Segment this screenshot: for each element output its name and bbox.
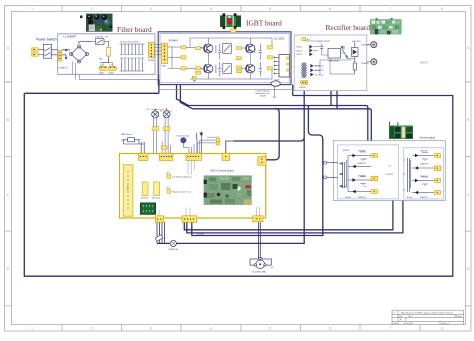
svg-text:MCU Control board: MCU Control board — [211, 168, 235, 172]
connector CN6 bottom — [155, 216, 163, 223]
svg-text:H8T06: H8T06 — [300, 87, 306, 89]
svg-text:T1006: T1006 — [260, 96, 267, 98]
wire: filter to IGBT links — [155, 45, 162, 55]
transformer drive right — [404, 158, 410, 192]
svg-text:2: 2 — [91, 326, 93, 330]
svg-text:CRU-x2: CRU-x2 — [296, 50, 302, 52]
svg-text:CRU-x2: CRU-x2 — [296, 47, 302, 49]
pads column IGBT left — [181, 46, 186, 49]
svg-text:C6: C6 — [389, 165, 391, 167]
svg-text:Thermostat rely: Thermostat rely — [177, 135, 190, 138]
svg-text:CONNECT1: CONNECT1 — [58, 68, 68, 70]
wire: IGBT bottom pair to rectifier — [177, 85, 368, 141]
svg-text:4T0Y7&Y: 4T0Y7&Y — [352, 41, 362, 43]
connector CN2 — [159, 153, 173, 160]
svg-text:C: C — [467, 193, 470, 197]
wire: lamp HL1 leads — [154, 118, 157, 154]
svg-text:3: 3 — [150, 7, 152, 11]
labels right module — [407, 151, 428, 199]
svg-text:DM66-TM: DM66-TM — [358, 175, 366, 177]
svg-text:CON-CM: CON-CM — [95, 37, 104, 39]
svg-text:rheost key: rheost key — [152, 197, 160, 200]
lamp HL2 — [163, 108, 170, 117]
svg-text:C7: C7 — [319, 42, 321, 44]
svg-text:TM26-TM: TM26-TM — [358, 151, 366, 153]
svg-text:Sheet of: Sheet of — [442, 322, 450, 325]
photo: IGBT PCB — [220, 13, 241, 29]
relay CON-CM R1 — [92, 39, 109, 48]
svg-text:C3: C3 — [109, 64, 111, 66]
svg-text:DM66-TM: DM66-TM — [358, 163, 366, 165]
svg-text:EL0826: EL0826 — [345, 197, 351, 199]
svg-text:24_CRU-x5: 24_CRU-x5 — [315, 74, 324, 76]
transformer T2 — [302, 63, 307, 79]
rectifier board box — [294, 35, 367, 91]
transformer drive left — [339, 162, 345, 188]
capacitor C11 — [218, 44, 221, 77]
wire: coil cable from MCU CN4 up to AC line — [234, 137, 305, 141]
svg-text:rheost key: rheost key — [141, 197, 149, 200]
svg-text:IGBT board: IGBT board — [246, 19, 282, 28]
svg-text:Thyristor current n set: Thyristor current n set — [172, 191, 191, 194]
svg-text:9-Jun-2007: 9-Jun-2007 — [403, 323, 414, 325]
svg-text:ICE-2010: ICE-2010 — [340, 187, 347, 189]
svg-text:D: D — [467, 267, 470, 271]
connector CN5 right edge — [258, 157, 266, 166]
connector CN3 — [186, 153, 201, 160]
transistor Q1 — [204, 44, 213, 53]
wire: top-left horizontal to filter board — [24, 80, 159, 94]
relay IC green — [140, 203, 155, 214]
common mode choke L1 — [62, 42, 93, 64]
wire: fan supply pair — [157, 222, 260, 257]
stubs into drive board — [326, 163, 338, 178]
right module rows — [411, 156, 435, 193]
current transformer T1 ellipse — [271, 81, 280, 86]
component Y2 — [154, 182, 160, 196]
svg-text:2: 2 — [91, 7, 93, 11]
wire: C2/C3 ground run — [73, 59, 113, 80]
svg-text:ICF-2010: ICF-2010 — [386, 174, 394, 176]
svg-text:1: 1 — [31, 7, 33, 11]
svg-text:C: C — [7, 193, 10, 197]
wire: coil feedback to MCU right connector — [267, 109, 280, 160]
svg-text:CON8: CON8 — [148, 60, 155, 62]
label: current release coil — [255, 90, 270, 98]
wire: coil sense pads — [197, 140, 216, 153]
transistor Q4 — [246, 64, 255, 73]
connector CN1 — [139, 153, 149, 160]
surge absorber RV1 — [122, 138, 145, 154]
svg-text:7: 7 — [389, 7, 391, 11]
svg-text:46D2: 46D2 — [100, 72, 104, 74]
connector VD8 IGBT left — [162, 44, 168, 64]
pad Jp1 — [302, 38, 306, 41]
svg-text:Phone: Phone — [456, 316, 463, 318]
wire: internal rect links — [306, 41, 355, 74]
svg-text:4T5A7&T: 4T5A7&T — [361, 62, 370, 65]
svg-text:5: 5 — [269, 326, 271, 330]
svg-text:46D2: 46D2 — [109, 72, 113, 74]
svg-text:104/1200V: 104/1200V — [216, 64, 218, 73]
svg-text:FUSE 10A: FUSE 10A — [169, 248, 178, 251]
capacitor C12 — [259, 44, 262, 77]
opto U3 — [352, 42, 359, 61]
power input terminals — [32, 48, 39, 56]
svg-text:L1 10000PF: L1 10000PF — [64, 36, 77, 38]
thermistor RT1 — [181, 138, 186, 143]
svg-text:DC24V/0.28A: DC24V/0.28A — [252, 271, 266, 274]
connector J2 IGBT right — [274, 55, 290, 78]
svg-text:7: 7 — [389, 326, 391, 330]
display connector strip — [123, 165, 133, 216]
relay K1 — [328, 46, 350, 59]
pad above CN2 — [161, 146, 167, 149]
resistor R11 — [353, 60, 356, 74]
pads right module — [434, 154, 441, 158]
wire: rectifier to drive board pair — [331, 91, 337, 109]
connector CN7 bottom — [182, 216, 197, 223]
svg-text:C3 C4 C5 C6 C7 C8 R9: C3 C4 C5 C6 C7 C8 R9 — [120, 41, 138, 43]
wire: rectifier DC down to fuse and MCU — [157, 91, 304, 244]
MCU board box — [120, 154, 266, 219]
title block — [392, 310, 464, 324]
lamp HL1 — [152, 109, 159, 118]
diode bank D4-D6 — [310, 64, 313, 76]
thyristor module VD1 — [223, 44, 232, 74]
svg-text:1 2 3: 1 2 3 — [126, 185, 128, 191]
photo: drive PCB — [389, 122, 413, 140]
wire: rectifier second down to MCU — [192, 106, 323, 236]
transistor Q3 — [246, 44, 255, 53]
svg-text:AN&S/Dowd: AN&S/Dowd — [122, 133, 132, 136]
svg-text:DM66-TM: DM66-TM — [420, 176, 428, 178]
output terminal AC1 — [371, 42, 377, 48]
capacitor C7 — [320, 44, 323, 52]
svg-text:1: 1 — [31, 326, 33, 330]
wire: CN4 riser — [226, 141, 234, 153]
svg-text:Jp1: Jp1 — [307, 39, 310, 41]
svg-text:4T0440Y: 4T0440Y — [169, 40, 179, 42]
svg-text:3: 3 — [150, 326, 152, 330]
svg-text:DM66-TM: DM66-TM — [420, 164, 428, 166]
svg-text:5: 5 — [269, 7, 271, 11]
pads column IGBT right — [268, 46, 273, 49]
svg-text:4: 4 — [210, 7, 212, 11]
svg-text:D: D — [7, 267, 10, 271]
svg-text:8: 8 — [441, 326, 443, 330]
wire: T1 sense lead — [273, 86, 276, 97]
pad transformer bottom — [301, 81, 308, 85]
svg-text:50KHZ: 50KHZ — [420, 61, 429, 65]
svg-text:6: 6 — [329, 7, 331, 11]
svg-text:Jc1 2SGZ: Jc1 2SGZ — [274, 38, 285, 40]
svg-text:4T5A0Y: 4T5A0Y — [253, 46, 256, 53]
svg-text:AC- ind lamp: AC- ind lamp — [160, 109, 173, 112]
drive right module box — [404, 148, 444, 199]
main navy wiring — [24, 80, 453, 277]
pads left module — [371, 154, 378, 158]
power switch S1 — [38, 44, 57, 58]
wire: IGBT internal rails — [168, 38, 273, 79]
svg-text:TM26-TM: TM26-TM — [420, 151, 428, 153]
connector CON8 filter right — [148, 43, 154, 58]
wire: CN3 to PCB — [159, 161, 260, 216]
labels left module — [340, 150, 367, 199]
svg-text:CRU-x2: CRU-x2 — [296, 54, 302, 56]
wire: drive board down to MCU pair — [184, 200, 403, 233]
capacitor C2 — [99, 66, 107, 70]
svg-text:8: 8 — [441, 7, 443, 11]
diode bank D1-D3 — [309, 45, 312, 56]
svg-text:Drive board: Drive board — [420, 136, 436, 140]
svg-text:104/1200V: 104/1200V — [216, 44, 218, 53]
capacitor bank C4-C9 — [120, 44, 145, 71]
svg-text:6: 6 — [329, 326, 331, 330]
capacitor C3 — [109, 66, 117, 70]
photo: MCU PCB — [204, 175, 252, 205]
IGBT board box — [158, 32, 291, 85]
photo: filter board PCB — [80, 14, 113, 32]
transistor Q2 — [204, 64, 213, 73]
connector CON1 filter left — [58, 51, 61, 62]
fuse F1 — [170, 240, 176, 246]
wire: lamp HL2 leads — [162, 118, 171, 154]
svg-text:TM26-TM: TM26-TM — [358, 197, 366, 199]
svg-text:S-V0606: S-V0606 — [197, 234, 204, 236]
wire: big AC loop left/bottom/right — [24, 93, 453, 276]
svg-text:Filter board: Filter board — [117, 25, 152, 34]
photo: rectifier PCB — [370, 18, 402, 34]
svg-text:TM26-TM: TM26-TM — [420, 197, 428, 199]
wire: stub loop to IGBT board bottom right — [292, 85, 294, 96]
wire: filter neutral run — [159, 88, 294, 90]
pad on IGBT box top — [231, 29, 237, 33]
svg-text:Power Switch: Power Switch — [36, 37, 57, 41]
svg-text:Rectifier board: Rectifier board — [326, 23, 371, 32]
svg-text:4: 4 — [210, 326, 212, 330]
svg-text:A-Oput: A-Oput — [407, 196, 413, 199]
junction dots bottom stubs — [155, 235, 163, 241]
svg-text:MUL-TEL AC-DC POWER supply ove: MUL-TEL AC-DC POWER supply over 2500w am… — [401, 312, 453, 315]
filter board box — [58, 34, 159, 80]
drive board box — [333, 141, 445, 201]
fan M1 — [250, 258, 271, 269]
pad with arrow IGBT bottom — [192, 76, 196, 79]
wire: thermistor lead — [183, 143, 194, 153]
svg-text:C2: C2 — [100, 64, 102, 66]
wire: IGBT bottom pair second — [180, 85, 371, 141]
resistor R2 vertical — [106, 48, 110, 57]
output terminal AC2 — [371, 59, 377, 65]
svg-text:Low battery voltage set: Low battery voltage set — [172, 176, 192, 179]
connector CN8 fan bottom — [253, 216, 263, 222]
component Y1 — [142, 182, 148, 196]
connector CN4 — [222, 153, 230, 160]
diode VD3 — [196, 131, 203, 153]
left module rows — [347, 156, 372, 192]
drive left module box — [338, 145, 399, 199]
svg-text:EL0826: EL0826 — [343, 150, 349, 152]
